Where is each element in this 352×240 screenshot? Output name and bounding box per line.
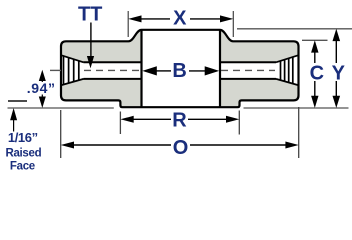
extension reference lines (gray) <box>8 29 352 108</box>
hub bottom extension (left for 1/16) <box>8 100 27 102</box>
1/16" raised face dimension <box>10 108 17 120</box>
O dimension <box>61 107 299 158</box>
svg-text:1/16”: 1/16” <box>8 130 38 145</box>
X dimension <box>128 11 233 37</box>
dashed centerline <box>50 69 275 71</box>
svg-text:O: O <box>173 137 189 159</box>
body outline stroke <box>61 30 299 107</box>
svg-text:.94”: .94” <box>27 80 56 96</box>
left thread lines <box>64 56 79 85</box>
right thread taper slants <box>276 55 299 85</box>
R dimension <box>120 111 239 135</box>
svg-text:Face: Face <box>10 161 35 173</box>
svg-text:Y: Y <box>332 63 346 85</box>
svg-text:X: X <box>173 7 187 29</box>
svg-text:TT: TT <box>78 4 102 26</box>
left thread taper slants <box>61 55 84 85</box>
flange cross-section dimensional diagram <box>0 0 352 180</box>
face line right <box>244 107 349 109</box>
right thread lines <box>281 57 293 83</box>
.94" dimension <box>39 70 46 81</box>
part body (gray fill) <box>61 30 299 107</box>
bore lines <box>84 62 277 79</box>
flange verticals <box>142 30 221 107</box>
svg-text:R: R <box>172 110 187 132</box>
svg-text:Raised: Raised <box>5 147 41 159</box>
bore + thread sockets white band <box>61 55 299 85</box>
Y dimension <box>335 41 337 63</box>
svg-text:B: B <box>172 60 186 82</box>
svg-text:C: C <box>310 63 324 85</box>
central flange white area <box>142 30 221 107</box>
face line left <box>8 107 114 109</box>
hub top extension <box>302 39 328 41</box>
C dimension <box>314 52 316 63</box>
flange top extension <box>237 28 352 30</box>
B dimension <box>155 70 171 72</box>
